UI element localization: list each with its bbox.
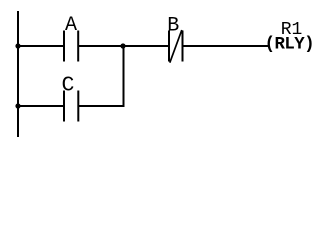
wire contact C to branch corner: [79, 105, 125, 107]
svg-text:C: C: [62, 74, 75, 98]
node junction dot on rail, bottom rung: [15, 103, 20, 108]
contact C (normally open): [63, 91, 79, 122]
svg-text:B: B: [167, 14, 179, 37]
contact A (normally open): [63, 31, 79, 62]
wire contact A to contact B: [79, 45, 168, 47]
svg-text:(RLY): (RLY): [265, 36, 314, 55]
left power rail: [17, 11, 19, 137]
wire rail to contact A: [17, 45, 63, 47]
node junction dot on rail, top rung: [15, 43, 20, 48]
wire contact B to relay coil R1: [184, 45, 269, 47]
wire rail to contact C: [17, 105, 63, 107]
contact B (normally closed): [168, 30, 184, 63]
svg-text:A: A: [65, 14, 77, 37]
node junction dot, branch joins top rung: [120, 43, 125, 48]
wire branch vertical up to top rung: [123, 46, 125, 107]
